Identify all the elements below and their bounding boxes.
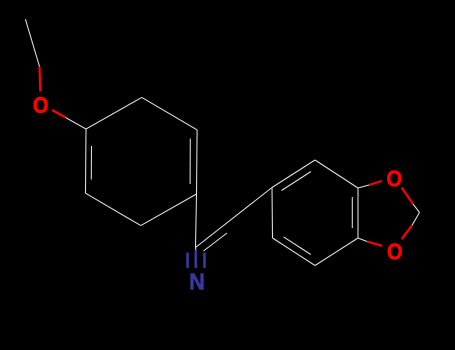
svg-text:N: N bbox=[189, 269, 205, 295]
bond O2-CH2 (red then white to methylene apex) bbox=[402, 188, 420, 213]
ring1 edge C4-C5 (top-left) bbox=[86, 97, 142, 129]
ring2 edge C6'-C7a (top-right) bbox=[315, 160, 358, 188]
ring1 edge C6-C1 (right, vertical) bbox=[196, 130, 199, 194]
bond O3-C3a (red half then white half) bbox=[358, 238, 382, 246]
bond CH3-O1 (methoxy methyl to oxygen, white half then red half) bbox=[25, 19, 40, 91]
atom O3 dioxole bottom oxygen label bbox=[387, 238, 403, 265]
alkene C2=C3 second (inner) line bbox=[204, 233, 228, 251]
svg-text:O: O bbox=[33, 92, 49, 119]
bond C7a-O2 (white half then red half) bbox=[358, 181, 382, 188]
ring2 edge C4'-C5a (bottom-left) bbox=[273, 238, 316, 266]
ring1 inner double-bond line (right vertical edge) bbox=[189, 139, 191, 185]
ring2 edge C7a-C3a fused (right, vertical) bbox=[357, 188, 359, 238]
atom N nitrile nitrogen label bbox=[189, 269, 205, 295]
ring1 edge C2a-C3a (bottom-left) bbox=[86, 193, 141, 225]
bond CH2-O3 (white from apex then red) bbox=[402, 213, 420, 240]
ring2 inner double-bond line (top-left edge) bbox=[282, 172, 312, 191]
ring1 inner double-bond line (left vertical edge) bbox=[90, 146, 92, 180]
bond O1-C4 (oxygen to ring1, red half then white half) bbox=[52, 110, 86, 129]
svg-text:O: O bbox=[387, 238, 403, 265]
ring2 inner double-bond line (fused vertical edge) bbox=[351, 197, 353, 228]
bond C1(ring1)-C2 (to alkene carbon, vertical) bbox=[196, 194, 197, 248]
atom O2 dioxole top oxygen label bbox=[387, 165, 403, 192]
ring1 edge C3a-C4 (left, vertical) bbox=[85, 129, 88, 193]
svg-text:O: O bbox=[387, 165, 403, 192]
atom O1 methoxy oxygen label bbox=[33, 92, 49, 119]
bond C2-C3 = alkene main line continuing to ring2 C5' bbox=[196, 188, 273, 248]
ring2 edge C5a-C5' (left, vertical) bbox=[271, 188, 274, 239]
ring2 edge C3a-C4' (bottom-right) bbox=[315, 238, 358, 266]
ring1 edge C1-C2a (bottom-right) bbox=[141, 194, 197, 226]
ring1 edge C5-C6 (top-right) bbox=[142, 97, 197, 129]
ring2 inner double-bond line (bottom-left edge) bbox=[284, 237, 311, 255]
nitrile C#N triple bond (three parallel strokes) bbox=[188, 248, 205, 269]
ring2 edge C5'-C6' (top-left) bbox=[272, 160, 315, 188]
